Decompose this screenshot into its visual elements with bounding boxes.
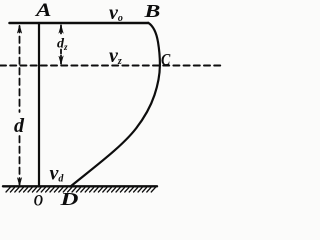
svg-text:dz: dz <box>57 37 68 53</box>
ground <box>3 185 157 187</box>
svg-text:vz: vz <box>109 45 122 67</box>
ground hatching <box>6 187 155 192</box>
wire velocity curve B-C-D <box>71 23 160 187</box>
svg-text:O: O <box>34 192 44 208</box>
wire <box>38 23 40 187</box>
svg-text:vd: vd <box>50 163 65 185</box>
wire <box>17 25 21 185</box>
svg-text:A: A <box>34 0 52 20</box>
wire <box>0 65 222 67</box>
wire <box>59 25 63 64</box>
svg-text:D: D <box>59 189 78 208</box>
svg-text:d: d <box>14 115 25 137</box>
svg-text:vo: vo <box>109 2 123 24</box>
wire <box>10 22 149 25</box>
svg-text:B: B <box>143 1 160 21</box>
